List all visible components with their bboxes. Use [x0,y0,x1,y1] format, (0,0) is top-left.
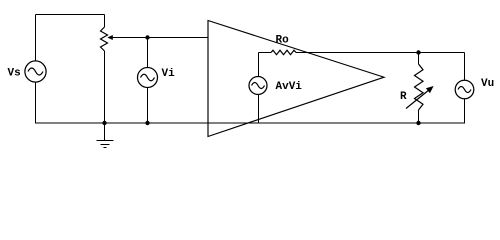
wiper arrow into potentiometer [107,35,113,40]
source Vi [138,68,158,88]
wire left vertical below Vs [35,83,37,124]
source Vu [455,80,474,99]
wire Ro to output corner [296,52,465,54]
svg-text:AvVi: AvVi [276,81,303,93]
resistor R zigzag [415,64,424,110]
ground [97,123,114,148]
node junction pot-bottom rail [102,121,106,125]
wire R bottom [418,110,420,124]
wire below potentiometer [104,51,106,124]
wire Vu bottom [464,99,466,124]
svg-text:R: R [400,91,407,103]
node junction Vi-bottom rail [145,121,149,125]
svg-text:Ro: Ro [276,35,290,47]
wire from top corner down to potentiometer [104,15,106,28]
wire R top [418,53,420,65]
wire left vertical above Vs [35,15,37,62]
op-amp triangle [208,21,384,137]
wire wiper to amplifier input [112,37,209,39]
node junction R-bottom rail [416,121,420,125]
svg-text:Vs: Vs [8,68,21,80]
wire bottom rail [36,122,465,124]
resistor Ro zigzag [271,50,296,55]
svg-text:Vu: Vu [481,78,494,90]
node junction output-R [416,50,420,54]
wire Vi bottom [147,88,149,124]
wire AvVi bottom [258,95,260,124]
wire AvVi top corner to Ro [259,53,272,78]
source AvVi [249,77,267,95]
arrow through R [406,86,434,109]
node junction wiper-Vi [145,35,149,39]
wire Vi top [147,38,149,68]
wire Vu top [464,53,466,81]
resistor potentiometer zigzag [101,27,108,51]
wire top from Vs to potentiometer [36,14,105,16]
source Vs [25,61,46,82]
svg-text:Vi: Vi [162,68,176,80]
